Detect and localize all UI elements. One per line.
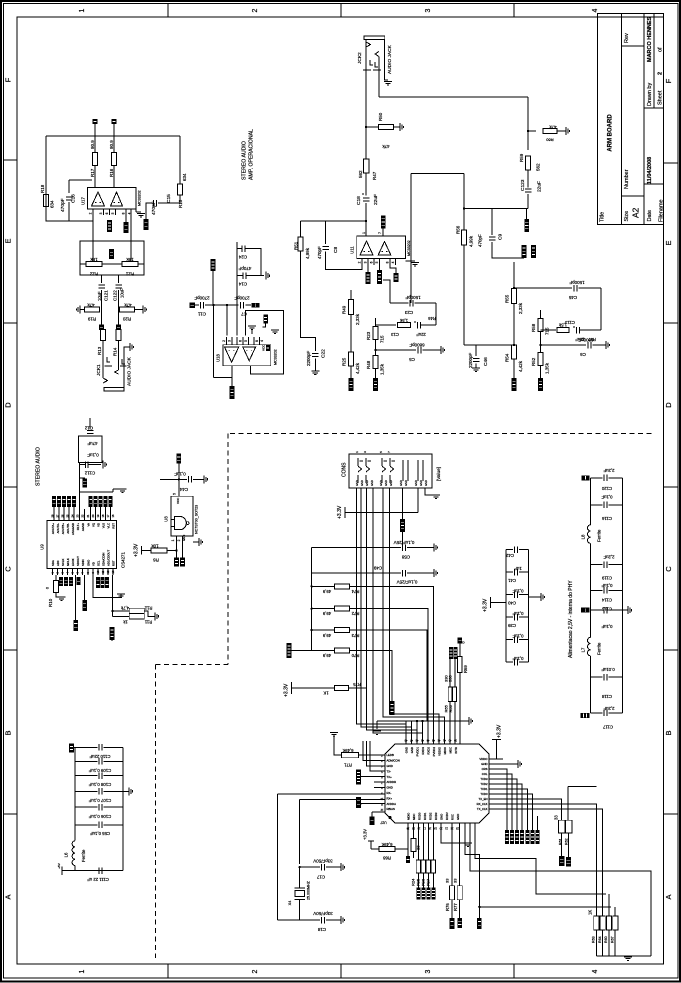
svg-text:GND: GND xyxy=(424,480,428,486)
resistor R56 xyxy=(463,174,465,231)
inductor L6 xyxy=(72,841,75,866)
svg-text:VD: VD xyxy=(92,562,96,566)
svg-text:GND: GND xyxy=(384,480,388,486)
capacitor C9 xyxy=(491,209,493,236)
resistor R69 xyxy=(459,643,461,656)
net labels above CS4271 group2 xyxy=(89,496,93,507)
svg-text:Rev: Rev xyxy=(624,33,630,43)
svg-text:VA: VA xyxy=(87,523,91,527)
svg-text:C39: C39 xyxy=(507,623,515,628)
svg-text:3: 3 xyxy=(364,261,368,263)
svg-text:8: 8 xyxy=(386,261,390,263)
svg-text:1,5k: 1,5k xyxy=(399,318,408,323)
svg-text:18k: 18k xyxy=(126,257,134,262)
capacitor C13 / resistor R46 xyxy=(376,324,397,326)
svg-text:L7: L7 xyxy=(581,647,586,652)
svg-text:A: A xyxy=(664,894,673,899)
wire xyxy=(101,307,103,326)
svg-text:562: 562 xyxy=(536,163,541,171)
svg-text:U9: U9 xyxy=(40,544,45,550)
svg-text:R62: R62 xyxy=(565,838,569,845)
svg-text:C16: C16 xyxy=(71,194,77,203)
svg-text:GND: GND xyxy=(389,480,393,486)
svg-text:R16: R16 xyxy=(109,168,114,177)
svg-text:Number: Number xyxy=(624,169,630,189)
ground near CS4271 top xyxy=(79,491,113,493)
svg-text:RXD2: RXD2 xyxy=(427,747,431,755)
svg-text:2: 2 xyxy=(177,539,181,541)
svg-text:47k: 47k xyxy=(124,302,132,307)
svg-text:RXD0: RXD0 xyxy=(418,812,422,820)
net label top left xyxy=(582,475,590,480)
svg-text:RST: RST xyxy=(112,523,116,529)
svg-text:C111 22 uF: C111 22 uF xyxy=(87,877,109,882)
svg-text:+5V: +5V xyxy=(57,863,61,868)
svg-text:+3.3V: +3.3V xyxy=(483,598,489,612)
resistor R21 xyxy=(122,261,138,266)
svg-text:6800pF: 6800pF xyxy=(409,342,425,347)
svg-text:6,49K: 6,49K xyxy=(381,842,392,847)
alim rungs xyxy=(591,477,603,479)
resistor R14 xyxy=(116,330,121,341)
phy right long wire TXD b xyxy=(489,809,603,916)
svg-text:0.01uF: 0.01uF xyxy=(601,667,615,672)
svg-text:47k: 47k xyxy=(382,144,390,149)
net label above R69 xyxy=(458,637,462,643)
svg-text:MDC: MDC xyxy=(412,814,416,820)
svg-text:MC33202: MC33202 xyxy=(407,240,411,256)
svg-text:R47: R47 xyxy=(372,171,377,180)
net label xyxy=(79,477,85,479)
ground right of L6 ladder xyxy=(123,790,129,792)
svg-text:4: 4 xyxy=(260,340,264,342)
svg-text:R20: R20 xyxy=(122,316,131,321)
svg-text:6: 6 xyxy=(105,212,109,214)
svg-text:GND: GND xyxy=(404,480,408,486)
svg-text:4,7k: 4,7k xyxy=(120,605,129,610)
audio jack JCK2 xyxy=(364,36,385,40)
net label in R21 box xyxy=(109,249,114,259)
capacitor C45 xyxy=(514,287,572,289)
svg-text:49,9: 49,9 xyxy=(322,589,331,594)
svg-text:C114: C114 xyxy=(601,597,612,602)
svg-text:F: F xyxy=(4,77,13,82)
ground right of C49 xyxy=(433,569,435,577)
svg-text:GND: GND xyxy=(365,480,369,486)
svg-text:R10: R10 xyxy=(48,598,53,607)
svg-text:634: 634 xyxy=(50,200,55,208)
ground U11 xyxy=(395,260,397,262)
net label below R25 xyxy=(349,378,354,391)
svg-text:R18: R18 xyxy=(40,184,45,193)
svg-text:U18: U18 xyxy=(216,353,221,361)
ground phy top left xyxy=(377,720,406,722)
right zone ticks xyxy=(664,322,679,324)
capacitor C123 22uF xyxy=(527,170,529,188)
svg-text:AD1/CDOUT: AD1/CDOUT xyxy=(107,550,111,566)
svg-text:715: 715 xyxy=(545,327,550,335)
svg-text:SDA: SDA xyxy=(51,560,55,566)
resistor R10 xyxy=(55,575,57,580)
svg-text:C122: C122 xyxy=(113,290,118,301)
capacitor C49 xyxy=(312,572,401,574)
svg-text:R74: R74 xyxy=(351,589,359,594)
capacitor C24 loop xyxy=(236,242,238,305)
wire xyxy=(94,166,96,188)
resistor R47 xyxy=(363,159,368,173)
svg-text:MDIO: MDIO xyxy=(443,746,447,754)
svg-text:JCK1: JCK1 xyxy=(96,364,102,376)
resistor R13 xyxy=(100,330,105,341)
capacitor C112 xyxy=(85,461,87,468)
svg-text:2: 2 xyxy=(252,969,259,973)
svg-text:0,1uF/25V: 0,1uF/25V xyxy=(394,540,415,545)
capacitor C22 xyxy=(312,353,319,355)
svg-text:2: 2 xyxy=(89,212,93,214)
svg-text:+3.3V: +3.3V xyxy=(337,505,343,519)
net label above C44 xyxy=(177,454,182,464)
capacitor C6 xyxy=(539,344,541,346)
svg-text:2,2uF: 2,2uF xyxy=(603,468,614,473)
svg-text:+3.3V: +3.3V xyxy=(497,724,503,738)
phy top bus to ground xyxy=(406,720,469,722)
net label mid left xyxy=(581,608,590,613)
bus wire CONS pin2 xyxy=(361,488,412,727)
net label below CONS xyxy=(402,488,404,519)
capacitor C17 row xyxy=(300,866,320,868)
svg-text:0,1uF: 0,1uF xyxy=(601,494,612,499)
inductor L7 xyxy=(588,637,591,656)
svg-text:MARCO HENNES: MARCO HENNES xyxy=(647,16,653,62)
svg-text:C18: C18 xyxy=(356,196,362,205)
resistor R60 xyxy=(606,916,611,930)
svg-text:AOUTB+: AOUTB+ xyxy=(61,523,65,535)
long wire to net label xyxy=(75,575,77,620)
svg-text:ARM BOARD: ARM BOARD xyxy=(608,114,614,152)
dashed partition vertical upper xyxy=(227,434,229,665)
ground right of C112 xyxy=(102,461,104,469)
ground above R71 xyxy=(330,732,338,734)
svg-text:A: A xyxy=(4,894,13,899)
resistor R71 6.49K xyxy=(342,753,359,758)
svg-text:18k: 18k xyxy=(90,257,98,262)
svg-text:MDIO: MDIO xyxy=(407,812,411,820)
feedback loop U18 xyxy=(246,310,284,374)
svg-text:C44: C44 xyxy=(179,487,188,492)
C39-C42 ladder rails xyxy=(505,550,507,663)
phy right pins xyxy=(489,758,503,760)
svg-text:SDIN: SDIN xyxy=(81,559,85,566)
svg-text:5: 5 xyxy=(111,212,115,214)
svg-text:PVDD1: PVDD1 xyxy=(416,747,420,757)
svg-text:C116: C116 xyxy=(601,516,612,521)
audio jack JCK1 xyxy=(102,341,104,379)
svg-text:C46: C46 xyxy=(483,357,489,366)
svg-text:2,33k: 2,33k xyxy=(355,313,360,325)
svg-text:SDA/CDIN: SDA/CDIN xyxy=(102,553,106,566)
svg-text:R68: R68 xyxy=(382,855,390,860)
svg-text:1,35k: 1,35k xyxy=(545,362,550,374)
bus wire CONS pin5 xyxy=(383,488,445,744)
wire right loop xyxy=(179,136,181,184)
net labels col below phy right xyxy=(505,830,509,844)
resistor R19 xyxy=(85,307,100,312)
wire left loop xyxy=(46,136,93,221)
ground right of phy top bus xyxy=(468,717,470,725)
svg-text:COL: COL xyxy=(482,772,488,776)
svg-text:TX-: TX- xyxy=(387,769,392,773)
wire right input node xyxy=(464,208,528,210)
svg-text:GND: GND xyxy=(456,814,460,820)
CS4271 bottom pin stubs xyxy=(52,568,54,575)
svg-text:Drawn by: Drawn by xyxy=(647,83,653,106)
svg-text:470pF: 470pF xyxy=(238,266,251,271)
svg-text:2200pF: 2200pF xyxy=(468,352,473,368)
svg-text:RX_CLK: RX_CLK xyxy=(477,802,488,806)
wire phy bottom long loop xyxy=(470,823,651,956)
svg-text:90.9: 90.9 xyxy=(109,140,114,149)
net labels below U11 xyxy=(367,265,369,272)
svg-text:C58: C58 xyxy=(401,554,410,559)
svg-text:TXD1: TXD1 xyxy=(480,787,488,791)
long vertical TXD d xyxy=(614,907,616,916)
net label below staircase xyxy=(477,918,482,929)
svg-text:C9: C9 xyxy=(498,234,504,240)
gate U8 body xyxy=(171,496,193,536)
svg-text:MC33202: MC33202 xyxy=(138,190,142,206)
phy top pin stubs xyxy=(405,721,407,744)
bus wire CONS pin6 xyxy=(390,488,440,744)
svg-text:4,99k: 4,99k xyxy=(305,247,310,259)
ground JCK2 xyxy=(384,81,392,83)
svg-text:VDDIO: VDDIO xyxy=(438,746,442,756)
svg-text:[Value]: [Value] xyxy=(436,467,441,481)
svg-text:C120: C120 xyxy=(601,486,612,491)
bottom zone ticks xyxy=(167,964,169,978)
svg-text:R21: R21 xyxy=(125,271,134,276)
wire xyxy=(600,288,602,330)
svg-text:1500pF: 1500pF xyxy=(569,280,585,285)
svg-text:R70: R70 xyxy=(351,653,359,658)
U11 pin 7 net label xyxy=(382,229,384,237)
svg-text:0,1uF: 0,1uF xyxy=(512,588,523,593)
svg-text:R14: R14 xyxy=(113,347,118,356)
wire through R22 R21 xyxy=(80,263,86,265)
svg-text:2700pF: 2700pF xyxy=(194,295,210,300)
svg-text:1uF: 1uF xyxy=(514,566,522,571)
phy right wires to net label column 2 xyxy=(489,789,528,830)
svg-text:0,1uF: 0,1uF xyxy=(174,471,186,476)
ground right of C14 xyxy=(265,272,267,280)
svg-text:R76: R76 xyxy=(445,903,450,911)
long wire 2 xyxy=(111,575,113,616)
net label below U17 xyxy=(107,220,112,232)
svg-text:LRCK: LRCK xyxy=(71,558,75,566)
bus wire CONS pin1 xyxy=(356,488,406,724)
svg-text:562: 562 xyxy=(358,170,363,178)
net labels col 2 xyxy=(525,830,529,844)
net label R68 xyxy=(390,701,395,715)
svg-text:TXD3: TXD3 xyxy=(480,777,488,781)
svg-text:R25: R25 xyxy=(342,357,347,366)
IC U27 PHY body xyxy=(385,744,489,823)
svg-text:E: E xyxy=(4,238,13,243)
wire xyxy=(213,305,215,377)
svg-text:47k: 47k xyxy=(549,124,557,129)
svg-text:R72: R72 xyxy=(351,611,359,616)
svg-text:GND: GND xyxy=(379,480,383,486)
net label hang xyxy=(84,575,86,600)
phy left stub AVDDR xyxy=(374,781,385,783)
ground right of C5 xyxy=(440,346,442,354)
wire R6 to U8 xyxy=(167,536,177,551)
svg-text:10uF: 10uF xyxy=(97,291,102,301)
svg-text:INTR: INTR xyxy=(454,747,458,754)
ground below phy xyxy=(441,823,466,843)
capacitor C122 xyxy=(118,275,120,283)
U18 pin stubs top xyxy=(226,337,228,345)
svg-text:C: C xyxy=(4,566,13,572)
resistor R22 xyxy=(86,261,102,266)
svg-text:22uF: 22uF xyxy=(416,332,426,337)
svg-text:AOUTB-: AOUTB- xyxy=(66,523,70,534)
power arrow L6 xyxy=(74,866,76,871)
svg-text:GND: GND xyxy=(410,747,414,753)
svg-text:C115: C115 xyxy=(601,606,612,611)
resistor R58 xyxy=(540,310,542,318)
alim ladder rails xyxy=(590,478,592,525)
op-amp U11 xyxy=(357,236,406,259)
svg-text:GND: GND xyxy=(87,560,91,566)
resistor R15 xyxy=(177,184,182,195)
resistor 47k pulldown right xyxy=(528,130,536,132)
IC U9 CS4271 body xyxy=(47,521,116,569)
svg-text:1: 1 xyxy=(79,969,86,973)
wire phy bottom staircase 2 xyxy=(475,823,606,894)
svg-text:C41: C41 xyxy=(507,578,515,583)
top zone ticks xyxy=(167,4,169,18)
svg-text:0,1uF: 0,1uF xyxy=(512,633,523,638)
svg-text:D: D xyxy=(664,402,673,408)
rail xyxy=(311,548,313,651)
capacitor C11 xyxy=(200,302,202,309)
resistor R18 xyxy=(43,195,48,207)
wire xyxy=(92,215,94,241)
phy right long wire TXD a xyxy=(489,804,596,916)
wire from C112 cluster to CS4271 xyxy=(79,492,81,521)
svg-text:AOUTA+: AOUTA+ xyxy=(51,523,55,534)
capacitor C18 crystal row xyxy=(278,919,321,921)
resistor R70 49.9 xyxy=(312,650,335,652)
svg-text:47k: 47k xyxy=(87,302,95,307)
svg-text:GND: GND xyxy=(355,480,359,486)
svg-text:AUDIO JACK: AUDIO JACK xyxy=(127,356,133,386)
net label left xyxy=(287,643,292,658)
net label RX pair xyxy=(356,797,361,808)
svg-text:2: 2 xyxy=(658,72,664,75)
svg-text:Ferrite: Ferrite xyxy=(597,529,602,542)
ground right of C58 xyxy=(433,544,435,552)
net label top left L6 xyxy=(69,744,74,753)
svg-text:R49: R49 xyxy=(342,305,347,314)
svg-text:2: 2 xyxy=(252,8,259,12)
wire JCK2 right channel xyxy=(379,96,528,98)
svg-text:F: F xyxy=(664,78,673,83)
svg-text:Alimentacao 2,5V - interna do: Alimentacao 2,5V - interna do PHY xyxy=(568,580,574,658)
resistor 33 below phy xyxy=(413,823,415,838)
svg-text:R63: R63 xyxy=(592,936,596,943)
L6 ladder rungs xyxy=(75,746,97,748)
svg-text:GND: GND xyxy=(414,480,418,486)
bus wire CONS pin4 xyxy=(373,488,423,733)
title block dividers xyxy=(622,45,645,47)
svg-text:VDDO: VDDO xyxy=(479,757,488,761)
svg-text:33: 33 xyxy=(453,878,458,883)
ground left of R19 xyxy=(80,309,85,311)
svg-text:RXC: RXC xyxy=(451,814,455,820)
gate symbol U8 xyxy=(175,517,187,530)
svg-text:C121: C121 xyxy=(104,290,109,301)
svg-text:C12: C12 xyxy=(84,425,93,430)
svg-text:C107 0,1uF: C107 0,1uF xyxy=(88,798,111,803)
svg-text:RXD2: RXD2 xyxy=(429,812,433,820)
svg-text:3: 3 xyxy=(99,212,103,214)
wire xyxy=(383,280,390,303)
capacitor C16 xyxy=(68,180,70,193)
svg-text:TX_CLK: TX_CLK xyxy=(477,807,488,811)
svg-text:6,49K: 6,49K xyxy=(342,748,353,753)
svg-text:R51: R51 xyxy=(294,241,299,250)
svg-text:C117: C117 xyxy=(602,724,613,729)
svg-text:RXD3: RXD3 xyxy=(421,747,425,755)
svg-text:C22: C22 xyxy=(321,349,327,358)
C12 box 47uF 0.1uF xyxy=(79,436,103,463)
svg-text:Title: Title xyxy=(600,212,606,222)
junction dots xyxy=(212,304,214,306)
capacitor C5 xyxy=(374,349,376,351)
ground U17 xyxy=(136,211,141,213)
U17 pin stubs bottom xyxy=(92,209,94,215)
svg-text:U27: U27 xyxy=(380,820,386,824)
svg-text:R22: R22 xyxy=(89,271,98,276)
net terminal C11 left xyxy=(190,303,195,308)
svg-text:PVDD2: PVDD2 xyxy=(432,747,436,757)
resistor R66 6.49K xyxy=(395,823,408,849)
svg-text:B: B xyxy=(664,730,673,735)
svg-text:E: E xyxy=(664,240,673,245)
svg-text:5: 5 xyxy=(244,340,248,342)
CONS pin glyphs xyxy=(357,458,359,466)
svg-text:SCL: SCL xyxy=(97,560,101,566)
svg-text:Size: Size xyxy=(624,211,630,222)
svg-text:RXD1: RXD1 xyxy=(423,812,427,820)
svg-text:GND: GND xyxy=(360,480,364,486)
svg-text:GND: GND xyxy=(387,764,393,768)
svg-text:GND: GND xyxy=(481,762,487,766)
svg-text:1500pF: 1500pF xyxy=(405,295,421,300)
svg-text:MDC: MDC xyxy=(449,747,453,753)
svg-text:470pF: 470pF xyxy=(478,234,483,247)
wires into phy left pins from bus xyxy=(363,741,385,760)
svg-text:Sheet: Sheet xyxy=(658,90,664,105)
svg-text:R77: R77 xyxy=(453,903,458,911)
svg-text:C110 22uF: C110 22uF xyxy=(89,754,110,759)
resistor R23 xyxy=(375,318,377,326)
svg-text:6: 6 xyxy=(370,261,374,263)
ground in U18 loop xyxy=(248,325,256,327)
net label in U18 loop xyxy=(263,315,268,324)
wire JCK2 left channel down xyxy=(365,97,367,159)
